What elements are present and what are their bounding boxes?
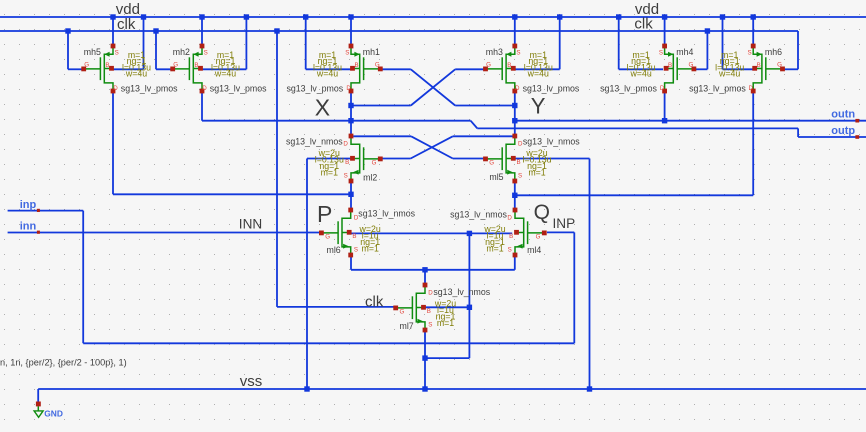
wire vdd to mh3 source [514, 17, 516, 46]
wire clk to mh4 gate (horizontal) [694, 68, 708, 70]
junction mh4 drain / outn [662, 118, 667, 123]
svg-text:mh3: mh3 [486, 47, 503, 57]
junction vdd rail x=753.2 [751, 14, 756, 19]
mh2 pin letters [173, 50, 207, 92]
value labels ml6 (w=2u, l=1u, ng=1, m=1) [359, 224, 381, 254]
transistor ml4 (sg13_lv_nmos) [515, 212, 544, 253]
wire ml2 gate to Y-drain (diagonal) [411, 136, 453, 158]
mh5 pin letters [84, 50, 118, 92]
wire inp along bottom [83, 342, 574, 344]
svg-text:inp: inp [20, 199, 37, 211]
svg-text:D: D [507, 214, 512, 221]
svg-text:clk: clk [634, 16, 653, 33]
svg-text:m=1: m=1 [362, 243, 379, 253]
wire outp step down [797, 128, 799, 137]
svg-text:G: G [372, 159, 377, 166]
svg-text:ml7: ml7 [400, 321, 414, 331]
svg-text:vss: vss [240, 373, 263, 390]
svg-text:mh5: mh5 [84, 47, 101, 57]
svg-text:n, 1n, {per/2}, {per/2 - 100p}: n, 1n, {per/2}, {per/2 - 100p}, 1) [0, 357, 127, 367]
wire clk to mh6 gate [784, 68, 798, 70]
wire bulk tie to ml7 source [425, 357, 469, 359]
wire outn run from Y to pin [515, 120, 866, 122]
svg-text:w=4u: w=4u [316, 69, 338, 79]
svg-text:B: B [517, 159, 521, 166]
mh2 pin squares (S,D,G,B) [200, 44, 205, 49]
wire clk to mh5 gate (horizontal) [68, 68, 84, 70]
svg-text:G: G [173, 62, 178, 69]
junction vdd rail x=143.5 [141, 14, 146, 19]
value labels mh5 (m=1, ng=1, l=0.13u, w=4u) [122, 50, 151, 79]
wire ml2 bulk down to vss [306, 159, 308, 390]
wire clk to mh2 gate (vertical) [155, 31, 157, 69]
svg-text:mh4: mh4 [676, 47, 693, 57]
wire node Q horizontal [515, 194, 753, 196]
svg-text:ml5: ml5 [489, 172, 503, 182]
svg-text:w=4u: w=4u [527, 69, 549, 79]
svg-text:clk: clk [365, 293, 384, 310]
svg-text:S: S [428, 322, 432, 329]
wire vdd rail [0, 16, 866, 18]
svg-text:S: S [747, 50, 751, 57]
value labels mh2 (m=1, ng=1, l=0.13u, w=4u) [211, 50, 240, 79]
transistor mh1 (sg13_lv_pmos) [351, 48, 380, 89]
wire vss down to gnd pin [37, 389, 39, 404]
value labels mh3 (m=1, ng=1, l=0.13u, w=4u) [524, 50, 553, 79]
svg-text:sg13_lv_nmos: sg13_lv_nmos [450, 209, 507, 219]
svg-text:B: B [352, 233, 356, 240]
pin inp marker [37, 209, 40, 212]
value labels ml5 (w=2u, l=0.13u, ng=1, m=1) [522, 148, 551, 178]
svg-text:m=1: m=1 [528, 167, 545, 177]
wire clk to mh5 gate (vertical) [67, 31, 69, 69]
wire vdd to mh1 source [350, 17, 352, 46]
svg-text:G: G [536, 233, 541, 240]
transistor ml2 (sg13_lv_nmos) [351, 138, 380, 179]
wire ml7 bulk (horizontal) [425, 306, 469, 308]
svg-text:D: D [346, 85, 351, 92]
junction vdd rail x=559.7 [557, 14, 562, 19]
wire ml2 drain to ml5 gate (diagonal) [411, 136, 453, 158]
svg-text:sg13_lv_pmos: sg13_lv_pmos [121, 84, 178, 94]
wire bulk tap down [468, 233, 470, 358]
mh6 pin letters [747, 50, 782, 92]
transistor mh6 (sg13_lv_pmos) [753, 48, 782, 89]
wire common source horizontal [351, 269, 515, 271]
svg-text:B: B [509, 233, 513, 240]
mh4 pin squares (S,D,G,B) [662, 44, 667, 49]
svg-text:B: B [668, 62, 672, 69]
mh6 pin squares (S,D,G,B) [751, 44, 756, 49]
junction common source / ml7 drain [422, 267, 427, 272]
wire vdd to mh5 source [112, 17, 114, 46]
ground GND (gnd symbol) [34, 402, 43, 418]
ml7 pin letters [400, 289, 434, 328]
wire node Q vertical (ml5 source to ml4 drain) [514, 181, 516, 210]
wire ml5 bulk (horizontal) [514, 158, 590, 160]
wire mh1 gate to Y (diagonal) [411, 69, 455, 105]
wire node P vertical (ml2 source to ml6 drain) [350, 181, 352, 210]
svg-text:Y: Y [531, 94, 546, 119]
wire node P horizontal [113, 193, 351, 195]
value labels mh6 (m=1, ng=1, l=0.13u, w=4u) [715, 50, 744, 79]
wire X to mh3 gate (diagonal) [411, 69, 455, 105]
svg-text:S: S [344, 173, 348, 180]
value labels ml7 (w=2u, l=1u, ng=1, m=1) [434, 298, 456, 328]
wire clk to ml7 gate (horizontal) [277, 306, 396, 308]
mh5 pin squares (S,D,G,B) [111, 44, 116, 49]
junction vdd rail x=722.5 [720, 14, 725, 19]
ml7 pin squares (D,S,G,B) [423, 283, 428, 288]
wire mh1 bulk to vdd (horizontal) [306, 68, 353, 70]
wire vss rail [38, 388, 866, 390]
svg-text:P: P [317, 201, 332, 227]
junction node X to outp run [348, 118, 353, 123]
svg-text:m=1: m=1 [321, 167, 338, 177]
svg-text:D: D [343, 140, 348, 147]
svg-text:sg13_lv_nmos: sg13_lv_nmos [286, 137, 343, 147]
wire mh5 bulk to vdd (horizontal) [112, 68, 144, 70]
wire inp from pin [8, 210, 84, 212]
junction clk rail x=707.4 [705, 28, 710, 33]
mh1 pin letters [345, 50, 380, 92]
junction node Y / gate tap [512, 103, 517, 108]
wire mh2 bulk to vdd (horizontal) [202, 68, 246, 70]
svg-text:w=4u: w=4u [629, 69, 651, 79]
svg-text:B: B [345, 159, 349, 166]
svg-text:Q: Q [534, 201, 550, 224]
svg-text:S: S [508, 247, 512, 254]
wire mh4 drain down to outn [664, 91, 666, 120]
svg-text:ml4: ml4 [527, 245, 541, 255]
svg-text:mh2: mh2 [173, 47, 190, 57]
junction clk rail x=277 [274, 28, 279, 33]
svg-text:D: D [515, 85, 520, 92]
svg-text:B: B [194, 62, 198, 69]
wire mh2 bulk to vdd (vertical) [245, 17, 247, 69]
junction node Q [512, 193, 517, 198]
svg-text:sg13_lv_pmos: sg13_lv_pmos [600, 84, 657, 94]
svg-text:outn: outn [831, 109, 855, 121]
svg-text:mh1: mh1 [363, 47, 380, 57]
junction vss rail x=307 [304, 386, 309, 391]
wire mh1 bulk to vdd (vertical) [305, 17, 307, 69]
svg-text:w=4u: w=4u [718, 69, 740, 79]
wire mh1 gate to Y (horizontal 2) [455, 105, 515, 107]
junction vdd rail x=202 [199, 14, 204, 19]
svg-text:sg13_lv_pmos: sg13_lv_pmos [210, 84, 267, 94]
wire outp run middle [477, 127, 798, 129]
svg-text:GND: GND [44, 408, 63, 418]
svg-text:D: D [749, 85, 754, 92]
svg-text:X: X [315, 95, 330, 121]
svg-text:sg13_lv_pmos: sg13_lv_pmos [689, 84, 746, 94]
svg-text:S: S [518, 173, 522, 180]
wire ml2 drain to ml5 gate (horizontal 2) [453, 158, 484, 160]
svg-text:outp: outp [831, 125, 855, 137]
ml4 pin letters [507, 214, 540, 253]
svg-text:sg13_lv_nmos: sg13_lv_nmos [433, 287, 490, 297]
wire clk to mh4 gate (vertical) [706, 31, 708, 69]
wire ml2 drain to ml5 gate (horizontal) [353, 135, 411, 137]
wire mh4 bulk to vdd (horizontal) [619, 68, 663, 70]
ml6 pin letters [325, 214, 359, 253]
svg-text:sg13_lv_pmos: sg13_lv_pmos [286, 84, 343, 94]
transistor ml5 (sg13_lv_nmos) [486, 138, 515, 179]
svg-text:B: B [105, 62, 109, 69]
ml2 pin squares (D,S,G,B) [349, 134, 354, 139]
transistor mh4 (sg13_lv_pmos) [665, 48, 694, 89]
svg-text:sg13_lv_nmos: sg13_lv_nmos [523, 137, 580, 147]
svg-text:S: S [115, 50, 119, 57]
wire outp step diagonal [471, 121, 478, 129]
wire clk rail bend down [797, 31, 799, 69]
junction vdd rail x=305.7 [303, 14, 308, 19]
transistor ml7 (sg13_lv_nmos) [396, 287, 425, 328]
value labels ml2 (w=2u, l=0.13u, ng=1, m=1) [315, 148, 344, 178]
wire inp down left side [82, 211, 84, 344]
svg-text:mh6: mh6 [765, 47, 782, 57]
wire mh6 bulk to vdd (horizontal) [723, 68, 754, 70]
svg-text:B: B [507, 62, 511, 69]
svg-text:S: S [659, 50, 663, 57]
transistor mh5 (sg13_lv_pmos) [84, 48, 113, 89]
junction vss rail x=425 [422, 386, 427, 391]
svg-text:INP: INP [553, 216, 576, 231]
junction vss rail x=589.5 [587, 386, 592, 391]
wire ml2 gate to Y-drain (horizontal) [381, 158, 411, 160]
wire mh5 drain down to P [112, 91, 114, 194]
wire inp to ml4 gate (horizontal) [547, 231, 574, 233]
svg-text:S: S [516, 50, 520, 57]
svg-text:ml6: ml6 [327, 245, 341, 255]
mh1 pin squares (S,D,G,B) [349, 44, 354, 49]
junction clk rail x=156 [153, 28, 158, 33]
wire inp up to ml4 gate [573, 232, 575, 343]
svg-text:sg13_lv_nmos: sg13_lv_nmos [358, 208, 415, 218]
junction ml7 source / bulk tie [422, 355, 427, 360]
mh3 pin squares (S,D,G,B) [512, 44, 517, 49]
wire ml6/ml4 bulk rail [350, 232, 513, 234]
wire ml7 drain up [424, 270, 426, 285]
junction vdd rail x=664.6 [662, 14, 667, 19]
transistor ml6 (sg13_lv_nmos) [321, 212, 350, 253]
svg-text:S: S [354, 247, 358, 254]
value labels ml4 (w=2u, l=1u, ng=1, m=1) [483, 224, 505, 254]
wire X to mh3 gate (horizontal) [351, 105, 411, 107]
svg-text:G: G [777, 62, 782, 69]
wire mh2 drain down [201, 91, 203, 120]
wire clk rail [0, 30, 798, 32]
svg-text:B: B [427, 308, 431, 315]
wire ml6 source down [350, 255, 352, 269]
wire ml2 gate to ml5 drain (horizontal 2) [453, 135, 513, 137]
wire vdd to mh6 source [752, 17, 754, 46]
svg-text:sg13_lv_pmos: sg13_lv_pmos [523, 84, 580, 94]
wire mh4 bulk to vdd (vertical) [618, 17, 620, 69]
svg-text:m=1: m=1 [486, 243, 503, 253]
ml6 pin squares (D,S,G,B) [348, 208, 353, 213]
wire mh5 bulk to vdd (vertical) [143, 17, 145, 69]
svg-text:D: D [202, 85, 207, 92]
wire ml2 bulk (horizontal) [307, 158, 353, 160]
value labels mh1 (m=1, ng=1, l=0.13u, w=4u) [313, 50, 342, 79]
junction vdd rail x=351 [348, 14, 353, 19]
svg-text:inn: inn [20, 221, 37, 233]
wire inn to ml6 gate [8, 232, 322, 234]
wire mh3 bulk to vdd (horizontal) [513, 68, 560, 70]
wire clk feed down to ml7 (vertical) [276, 31, 278, 307]
transistor mh3 (sg13_lv_pmos) [486, 48, 515, 89]
mh4 pin letters [659, 50, 694, 92]
junction bulk rail tap [467, 231, 472, 236]
svg-text:clk: clk [117, 16, 136, 33]
ml5 pin letters [489, 140, 523, 179]
junction vdd rail x=246.4 [244, 14, 249, 19]
svg-text:G: G [375, 62, 380, 69]
wire X to mh3 gate (horizontal 2) [455, 68, 484, 70]
mh3 pin letters [486, 50, 520, 92]
wire ml5 bulk down to vss [589, 159, 591, 390]
wire mh3 bulk to vdd (vertical) [559, 17, 561, 69]
wire mh6 bulk to vdd (vertical) [722, 17, 724, 69]
wire vdd to mh2 source [201, 17, 203, 46]
svg-text:G: G [400, 308, 405, 315]
wire ml7 source to vss [424, 329, 426, 389]
wire ml4 source down [514, 255, 516, 269]
svg-text:D: D [113, 85, 118, 92]
ml2 pin letters [343, 140, 376, 179]
svg-text:w=4u: w=4u [125, 69, 147, 79]
pin outn (output pin marker) [855, 119, 859, 123]
wire vdd to mh4 source [664, 17, 666, 46]
svg-text:G: G [486, 62, 491, 69]
svg-text:ml2: ml2 [363, 172, 377, 182]
svg-text:G: G [84, 62, 89, 69]
junction node P [348, 192, 353, 197]
junction bulk tap / ml7 bulk [467, 305, 472, 310]
svg-text:m=1: m=1 [437, 318, 454, 328]
wire outp run from mh2 drain through X [202, 120, 471, 122]
value labels mh4 (m=1, ng=1, l=0.13u, w=4u) [627, 50, 656, 79]
wire node X vertical (mh1 drain to ml2 drain) [350, 91, 352, 136]
svg-text:G: G [688, 62, 693, 69]
junction node X / gate tap [348, 103, 353, 108]
svg-text:w=4u: w=4u [214, 69, 236, 79]
junction vdd rail x=514.8 [512, 14, 517, 19]
svg-text:G: G [325, 233, 330, 240]
svg-text:B: B [757, 62, 761, 69]
junction vdd rail x=618.7 [616, 14, 621, 19]
wire clk to mh2 gate (horizontal) [156, 68, 173, 70]
junction node Y to outn run [512, 118, 517, 123]
pin inn marker [37, 231, 40, 234]
wire mh1 gate to Y (horizontal) [382, 68, 410, 70]
junction clk rail x=68 [65, 28, 70, 33]
svg-text:G: G [489, 159, 494, 166]
ml4 pin squares (D,S,G,B) [513, 208, 518, 213]
wire node Y vertical (mh3 drain to ml5 drain) [514, 91, 516, 136]
wire mh6 drain down to Q [752, 91, 754, 195]
pin outp (output pin marker) [855, 135, 859, 139]
transistor mh2 (sg13_lv_pmos) [173, 48, 202, 89]
svg-text:S: S [204, 50, 208, 57]
svg-text:INN: INN [239, 216, 262, 231]
svg-text:B: B [354, 62, 358, 69]
ml5 pin squares (D,S,G,B) [512, 134, 517, 139]
junction vdd rail x=113 [110, 14, 115, 19]
svg-text:S: S [345, 50, 349, 57]
svg-text:D: D [660, 85, 665, 92]
wire outp run to pin [798, 136, 866, 138]
